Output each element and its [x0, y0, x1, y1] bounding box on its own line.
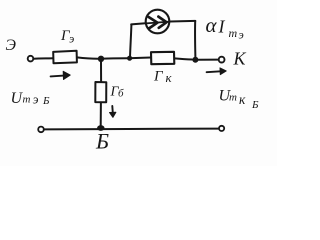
wire from left junction to resistor Гк [132, 57, 151, 60]
label current αImэ of current source [206, 13, 244, 42]
wire from node down to resistor Гб [100, 61, 102, 82]
wire from right junction to terminal К [198, 59, 218, 61]
label value Гэ of resistor Гэ [60, 28, 74, 46]
current source U1 circle [146, 10, 170, 34]
resistor Гб [95, 82, 106, 102]
resistor Гэ [53, 51, 77, 64]
wire left vertical of parallel branch [130, 25, 131, 58]
svg-text:к: к [166, 70, 173, 85]
terminal К (output terminal circle) [219, 57, 225, 63]
arrow current direction under wire to К [207, 68, 227, 75]
svg-text:К: К [233, 49, 247, 69]
svg-text:m: m [229, 26, 238, 40]
wire from resistor Гэ to node at top of Гб [77, 57, 98, 58]
junction dot at base node Б [97, 125, 104, 131]
wire from resistor Гб down to base node Б [100, 102, 102, 125]
wire right vertical of parallel branch [194, 21, 196, 58]
resistor Гк [151, 52, 174, 64]
junction dot at left corner of parallel branch [127, 56, 132, 61]
svg-text:Э: Э [6, 37, 17, 54]
label Э terminal name [6, 37, 17, 54]
label Б base node name [95, 129, 109, 154]
wire from resistor Гк to right junction [175, 58, 193, 59]
svg-text:I: I [218, 16, 226, 36]
svg-text:α: α [206, 13, 218, 37]
wire bottom rail [44, 128, 219, 131]
svg-text:Б: Б [95, 129, 109, 154]
terminal circle bottom-left [38, 127, 44, 133]
junction dot at node above Гб [98, 56, 104, 62]
label value Гк of resistor Гк [153, 69, 173, 86]
terminal Э (input terminal circle) [28, 56, 34, 62]
wire from node to left corner of parallel branch [104, 57, 127, 59]
arrow current direction under resistor Гэ [51, 71, 71, 79]
label voltage UmкБ [219, 88, 260, 112]
arrow current direction beside resistor Гб pointing down [110, 106, 116, 117]
svg-text:э: э [33, 91, 39, 106]
label value Гб of resistor Гб [110, 85, 125, 100]
junction dot at right corner of parallel branch [192, 57, 198, 63]
svg-text:m: m [229, 92, 237, 104]
label К terminal name [233, 49, 247, 69]
label voltage UmэБ [11, 90, 51, 107]
svg-text:Г: Г [153, 69, 164, 85]
terminal circle bottom-right [219, 126, 224, 131]
wire from terminal Э to resistor Гэ [34, 57, 53, 59]
svg-text:m: m [23, 93, 31, 105]
svg-text:к: к [239, 92, 246, 107]
svg-text:б: б [118, 88, 124, 100]
svg-text:э: э [69, 32, 74, 46]
svg-text:Б: Б [42, 95, 50, 107]
wire top-right of parallel branch [170, 20, 195, 23]
svg-text:Б: Б [251, 99, 259, 111]
wire top-left of parallel branch to current source [131, 23, 145, 24]
current source arrow line through circle [146, 17, 170, 29]
svg-text:э: э [239, 28, 244, 42]
